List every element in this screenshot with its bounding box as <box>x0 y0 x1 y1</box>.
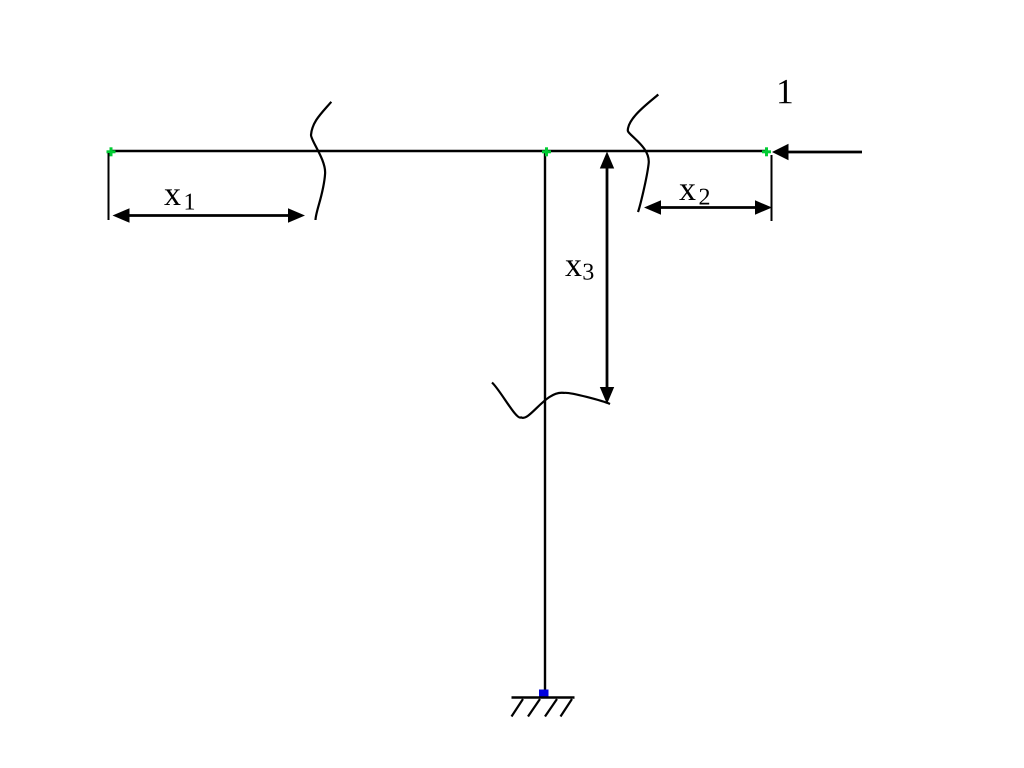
support node: fixed support (blue square) <box>539 690 549 699</box>
label: x2 <box>679 184 695 200</box>
load arrow: unit force 1 pointing left at right end <box>772 144 862 161</box>
wire: right extension line <box>771 155 773 221</box>
dimension x2: double-headed arrow <box>644 200 772 214</box>
node B: beam-column joint node (green cross) <box>542 147 551 156</box>
wire: vertical column member <box>544 151 546 690</box>
label: x3 <box>565 260 581 276</box>
wire: break squiggle on beam (right) <box>628 95 659 213</box>
ground <box>512 698 575 717</box>
wire: break squiggle on beam (left) <box>311 102 331 220</box>
wire: horizontal beam member <box>110 150 766 152</box>
wire: break squiggle on column (horizontal) <box>492 383 610 418</box>
dimension x1: double-headed arrow <box>113 208 306 222</box>
label: load value 1 <box>779 80 792 103</box>
node A: left end node (green cross) <box>107 147 116 156</box>
wire: left extension line <box>108 153 110 220</box>
label: x1 <box>164 189 180 205</box>
dimension x3: vertical double-headed arrow <box>600 152 614 405</box>
node C: right end node (green cross) <box>762 147 771 156</box>
